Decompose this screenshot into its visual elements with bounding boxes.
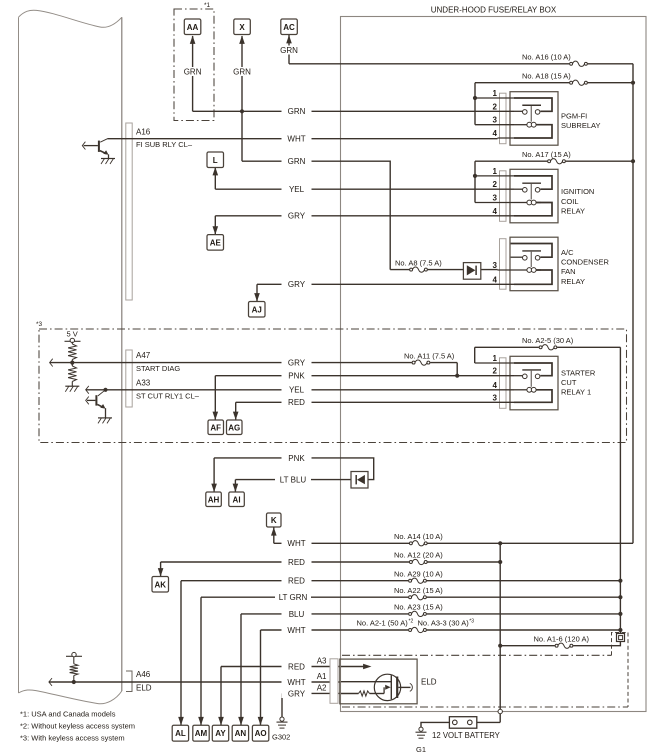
svg-text:YEL: YEL [289,386,305,395]
svg-text:GRY: GRY [288,212,306,221]
svg-text:ST CUT RLY1 CL–: ST CUT RLY1 CL– [136,391,200,400]
svg-text:5 V: 5 V [67,330,78,339]
svg-text:GRN: GRN [288,157,306,166]
svg-text:A47: A47 [136,351,151,360]
svg-text:4: 4 [493,207,498,216]
svg-text:AG: AG [228,423,240,432]
svg-text:PGM-FI: PGM-FI [561,111,587,120]
svg-text:A3: A3 [317,657,327,666]
svg-text:ELD: ELD [136,683,152,692]
svg-text:PNK: PNK [288,372,305,381]
svg-text:No. A11 (7.5 A): No. A11 (7.5 A) [404,351,455,360]
svg-text:RED: RED [288,558,305,567]
svg-text:RELAY: RELAY [561,206,585,215]
svg-text:*2: Without keyless access sys: *2: Without keyless access system [20,722,135,731]
svg-text:G1: G1 [416,745,426,754]
svg-text:GRN: GRN [184,67,202,76]
svg-text:No. A12 (20 A): No. A12 (20 A) [394,551,443,560]
svg-text:2: 2 [493,367,498,376]
svg-text:2: 2 [493,180,498,189]
svg-text:STARTER: STARTER [561,368,596,377]
svg-text:12 VOLT BATTERY: 12 VOLT BATTERY [432,731,501,740]
svg-text:*1: *1 [204,2,211,9]
svg-text:RED: RED [288,577,305,586]
svg-text:AM: AM [195,729,208,738]
svg-text:RELAY: RELAY [561,277,585,286]
svg-text:RELAY 1: RELAY 1 [561,388,591,397]
svg-text:AN: AN [235,729,247,738]
svg-text:AE: AE [210,238,222,247]
svg-text:No. A8 (7.5 A): No. A8 (7.5 A) [395,258,442,267]
svg-text:A/C: A/C [561,248,574,257]
svg-text:LT GRN: LT GRN [279,593,308,602]
svg-text:L: L [213,156,218,165]
svg-text:No. A1-6 (120 A): No. A1-6 (120 A) [534,634,590,643]
svg-text:AH: AH [208,495,220,504]
svg-text:K: K [271,516,277,525]
svg-text:3: 3 [493,261,498,270]
svg-text:CONDENSER: CONDENSER [561,258,610,267]
svg-text:No. A3-3 (30 A): No. A3-3 (30 A) [418,618,470,627]
svg-text:No. A14 (10 A): No. A14 (10 A) [394,532,443,541]
svg-text:RED: RED [288,662,305,671]
svg-text:GRN: GRN [280,46,298,55]
svg-text:No. A22 (15 A): No. A22 (15 A) [394,586,443,595]
svg-text:No. A2-5 (30 A): No. A2-5 (30 A) [522,336,574,345]
svg-text:*1: USA and Canada models: *1: USA and Canada models [20,710,116,719]
svg-text:No. A2-1 (50 A): No. A2-1 (50 A) [357,618,409,627]
svg-text:START DIAG: START DIAG [136,364,180,373]
svg-text:4: 4 [493,275,498,284]
svg-text:A16: A16 [136,128,151,137]
svg-text:*3: *3 [36,321,43,328]
svg-text:AC: AC [283,23,295,32]
svg-text:3: 3 [493,194,498,203]
svg-text:RED: RED [288,398,305,407]
svg-text:BLU: BLU [289,610,305,619]
svg-text:3: 3 [493,116,498,125]
svg-text:G302: G302 [272,732,290,741]
svg-text:3: 3 [493,393,498,402]
svg-text:WHT: WHT [287,678,305,687]
svg-text:*3: *3 [469,618,474,624]
svg-text:X: X [239,23,245,32]
svg-text:WHT: WHT [287,626,305,635]
svg-text:No. A23 (15 A): No. A23 (15 A) [394,603,443,612]
svg-text:GRN: GRN [288,107,306,116]
svg-text:A46: A46 [136,670,151,679]
svg-text:CUT: CUT [561,378,577,387]
svg-text:1: 1 [493,89,498,98]
svg-text:No. A29 (10 A): No. A29 (10 A) [394,569,443,578]
svg-text:No. A16 (10 A): No. A16 (10 A) [522,52,571,61]
svg-text:LT BLU: LT BLU [280,475,307,484]
svg-text:GRY: GRY [288,358,306,367]
svg-text:2: 2 [493,102,498,111]
svg-text:WHT: WHT [287,135,305,144]
svg-text:AA: AA [187,23,199,32]
svg-text:GRN: GRN [233,67,251,76]
svg-text:A1: A1 [317,672,327,681]
svg-text:IGNITION: IGNITION [561,187,594,196]
svg-text:AO: AO [255,729,267,738]
svg-text:FI SUB RLY CL–: FI SUB RLY CL– [136,140,193,149]
svg-text:No. A18 (15 A): No. A18 (15 A) [522,71,571,80]
svg-text:AL: AL [175,729,186,738]
svg-text:GRY: GRY [288,280,306,289]
svg-text:PNK: PNK [288,454,305,463]
svg-text:AF: AF [210,423,221,432]
svg-text:A2: A2 [317,683,327,692]
svg-text:UNDER-HOOD FUSE/RELAY BOX: UNDER-HOOD FUSE/RELAY BOX [431,6,557,15]
svg-text:YEL: YEL [289,185,305,194]
svg-text:*2: *2 [409,618,414,624]
svg-text:SUBRELAY: SUBRELAY [561,121,600,130]
svg-text:COIL: COIL [561,197,579,206]
svg-text:AY: AY [215,729,226,738]
svg-text:AI: AI [233,495,241,504]
svg-text:ELD: ELD [421,677,437,686]
svg-text:4: 4 [493,129,498,138]
svg-text:A33: A33 [136,378,151,387]
svg-text:GRY: GRY [288,689,306,698]
svg-text:4: 4 [493,381,498,390]
svg-text:WHT: WHT [287,539,305,548]
svg-text:AJ: AJ [252,305,262,314]
svg-text:No. A17 (15 A): No. A17 (15 A) [522,150,571,159]
svg-text:*3: With keyless access system: *3: With keyless access system [20,734,125,743]
svg-text:1: 1 [493,354,498,363]
svg-text:1: 1 [493,167,498,176]
svg-text:FAN: FAN [561,267,576,276]
svg-text:AK: AK [154,580,166,589]
